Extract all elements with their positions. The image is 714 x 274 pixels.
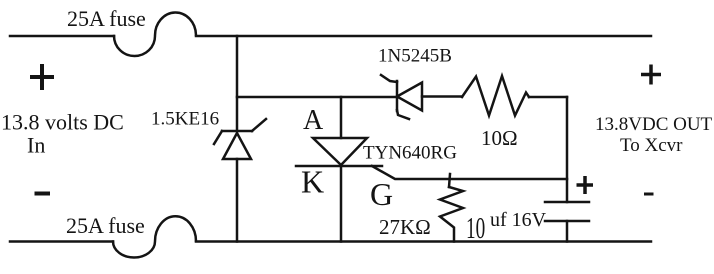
svg-text:To Xcvr: To Xcvr — [620, 135, 683, 156]
diode D1 1.5KE16 TVS zener — [214, 119, 266, 159]
node junction tick at 27K top — [449, 174, 450, 187]
svg-text:13.8VDC OUT: 13.8VDC OUT — [595, 114, 713, 135]
wire diode to resistor — [422, 95, 462, 98]
wire branch horizontal — [237, 96, 397, 99]
wire bottom rail left — [10, 240, 113, 243]
svg-text:10Ω: 10Ω — [481, 126, 518, 150]
svg-text:25A fuse: 25A fuse — [67, 6, 146, 31]
wire bottom rail right — [196, 240, 651, 243]
fuse F1 top (25A) — [114, 12, 196, 56]
wire SCR anode drop — [340, 97, 343, 138]
resistor R1 10 ohm — [462, 76, 529, 116]
wire resistor to corner — [529, 96, 567, 99]
diode D2 1N5245B zener — [381, 75, 422, 119]
capacitor C1 10uF 16V — [545, 202, 589, 221]
wire gate G — [372, 166, 567, 179]
wire left vertical lower — [236, 159, 239, 242]
svg-text:A: A — [303, 105, 324, 136]
wire left vertical upper — [236, 36, 239, 131]
wire top rail right — [196, 35, 651, 38]
svg-text:1N5245B: 1N5245B — [378, 46, 452, 67]
plus sign capacitor polarity — [577, 176, 594, 194]
svg-text:10: 10 — [466, 210, 485, 245]
fuse F2 bottom (25A) — [113, 216, 196, 257]
svg-text:1.5KE16: 1.5KE16 — [151, 109, 219, 130]
resistor R2 27K ohm — [440, 187, 463, 242]
wire SCR cathode to bottom rail — [340, 165, 343, 242]
svg-text:G: G — [370, 176, 393, 212]
wire capacitor to bottom rail — [566, 221, 569, 242]
thyristor Q1 TYN640RG — [296, 138, 382, 166]
svg-text:In: In — [27, 133, 45, 158]
minus sign left input — [35, 192, 51, 196]
svg-text:27KΩ: 27KΩ — [379, 215, 431, 239]
svg-text:TYN640RG: TYN640RG — [363, 143, 457, 164]
svg-text:K: K — [301, 164, 324, 200]
plus sign left input — [30, 64, 54, 90]
minus sign right output — [644, 193, 654, 196]
svg-text:13.8 volts DC: 13.8 volts DC — [1, 110, 124, 135]
wire top rail left — [10, 35, 114, 38]
wire right vertical — [566, 97, 569, 202]
plus sign right output — [641, 65, 661, 85]
svg-text:uf 16V: uf 16V — [490, 209, 547, 231]
svg-text:25A fuse: 25A fuse — [66, 213, 145, 238]
